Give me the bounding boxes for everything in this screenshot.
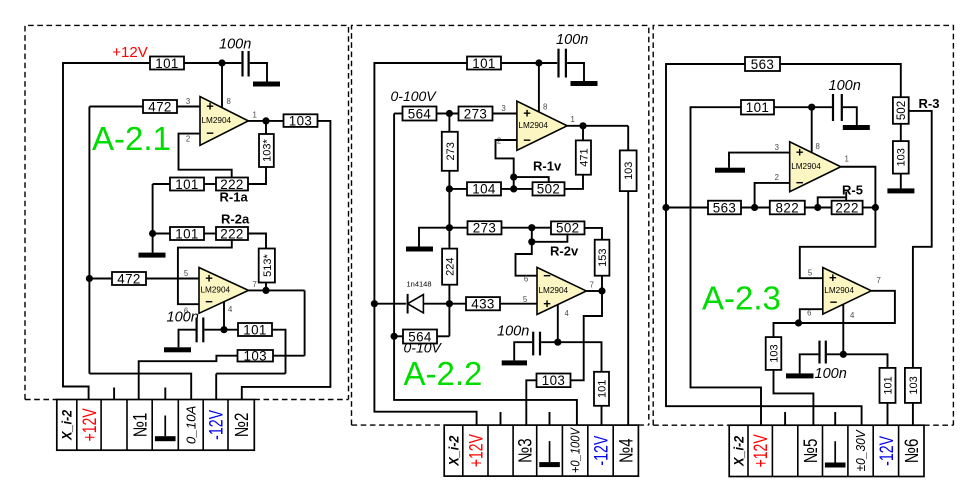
svg-text:273: 273 [473, 221, 497, 236]
capacitor 100n U2 supply [197, 318, 204, 343]
svg-text:−: − [205, 294, 213, 309]
wire rail to 564 [394, 113, 402, 115]
wire +12V rail A-2.2 [374, 63, 476, 425]
svg-text:0_10A: 0_10A [183, 406, 198, 445]
svg-text:2: 2 [497, 137, 501, 146]
svg-text:1: 1 [253, 111, 257, 120]
svg-text:+: + [206, 99, 214, 114]
wire 564 to 273 [437, 113, 459, 115]
wire 101 to connector -12V [887, 403, 889, 425]
wire U6 output feedback to 103 [774, 291, 895, 337]
wire input rail to 472 second [89, 278, 112, 280]
svg-text:−: − [543, 268, 551, 283]
wire to pin 6 U4 [516, 242, 538, 276]
wire 101 right down [273, 330, 286, 374]
wire pin 3 to ground [729, 153, 790, 168]
resistor 101 (R supply A-2.1) [150, 56, 184, 71]
wire capacitor to ground [843, 107, 857, 125]
svg-text:R-5: R-5 [842, 183, 863, 198]
junction U3 output [579, 122, 586, 129]
capacitor 100n bypass U5 [833, 94, 842, 121]
svg-text:-12V: -12V [876, 436, 898, 466]
resistor 101 vertical to -12V [594, 372, 609, 406]
svg-text:472: 472 [148, 99, 172, 114]
svg-text:104: 104 [472, 182, 496, 197]
svg-text:472: 472 [117, 271, 141, 286]
wire pin 8 supply stub [221, 63, 223, 108]
wire 103 to connector No1 [139, 356, 238, 400]
svg-text:1n4148: 1n4148 [407, 280, 432, 289]
svg-text:100n: 100n [815, 366, 847, 382]
wire 472 to pin 5 [146, 278, 199, 280]
wire 103 to connector No4 [627, 191, 629, 425]
module A-2.3 dashed border (left/top/right) [653, 25, 953, 425]
stub connector cell 3 A-2.3 [784, 412, 786, 425]
svg-text:563: 563 [713, 200, 737, 215]
wire 101 to connector -12V [601, 406, 603, 425]
wire junction link [531, 228, 533, 242]
svg-text:R-3: R-3 [919, 96, 940, 111]
junction row left A-2.3 [662, 204, 669, 211]
ground symbol in connector cell [825, 441, 846, 467]
wire U4 output [586, 290, 602, 292]
module A-2.3 dashed border bottom-left segment [653, 424, 729, 426]
ground bar middle A-2.1 [139, 253, 166, 258]
stub connector ground cell [164, 388, 166, 400]
svg-text:+: + [543, 296, 551, 311]
wire 103 to connector No6 [912, 403, 914, 425]
wire to 273 row 2 [449, 227, 467, 229]
resistor 103 vertical output A-2.3 [766, 337, 782, 370]
potentiometer 222 R-5 [832, 200, 863, 215]
svg-text:101: 101 [746, 100, 770, 115]
resistor 273 second stage [468, 221, 502, 236]
wire 563 to 822 [741, 207, 770, 209]
svg-text:3: 3 [775, 143, 779, 152]
wire output down to 103 [304, 290, 306, 355]
svg-text:−: − [206, 126, 214, 141]
svg-text:4: 4 [228, 305, 233, 314]
stub connector cell 3 [113, 388, 115, 400]
connector X_i-2 module A-2.1 [57, 400, 255, 451]
junction U2 output [262, 287, 269, 294]
svg-text:X_i-2: X_i-2 [446, 435, 461, 466]
junction 104/502 row [510, 185, 517, 192]
potentiometer 222 R-2a [216, 226, 248, 241]
wire 222 to output node [863, 207, 876, 209]
svg-text:7: 7 [877, 276, 881, 285]
ground bar pin3 A-2.3 [715, 168, 745, 173]
svg-text:101: 101 [596, 380, 608, 398]
ground symbol in connector cell [539, 441, 560, 467]
svg-text:R-1v: R-1v [533, 159, 562, 174]
junction supply node [218, 59, 225, 66]
svg-text:LM2904: LM2904 [791, 162, 821, 171]
svg-text:103: 103 [908, 376, 920, 394]
svg-text:LM2904: LM2904 [539, 286, 569, 295]
svg-text:101: 101 [472, 56, 496, 71]
wire pin 2 to row [755, 183, 790, 208]
wire divider rail [448, 171, 450, 249]
wire 101 to capacitor [184, 62, 241, 64]
svg-text:103: 103 [768, 344, 780, 362]
wire pin 6 to feedback [800, 309, 823, 323]
wire R-5 pointer [845, 192, 847, 201]
wire cap to ground [179, 330, 196, 348]
svg-text:7: 7 [253, 280, 257, 289]
svg-text:№3: №3 [516, 438, 537, 463]
svg-text:103: 103 [542, 373, 566, 388]
wire rail to 104 [449, 188, 467, 190]
wire input rail to 472 [89, 106, 143, 108]
stub connector cell 3 A-2.2 [500, 412, 502, 425]
svg-text:+: + [829, 270, 837, 285]
resistor 103 vertical to No6 [905, 368, 921, 403]
potentiometer 502 R-2v [551, 221, 585, 236]
svg-text:101: 101 [155, 56, 179, 71]
wire 103 output to connector No2 [242, 121, 331, 400]
wire capacitor to ground [567, 63, 584, 81]
svg-text:100n: 100n [167, 310, 199, 326]
junction U5 output node [872, 204, 879, 211]
wire output to 471 [582, 126, 584, 140]
svg-text:273: 273 [445, 142, 457, 160]
resistor 103* vertical feedback U1 [259, 134, 274, 167]
wire to connector -12V [215, 374, 217, 400]
svg-text:R-2a: R-2a [221, 212, 250, 227]
junction U4 output [598, 287, 605, 294]
wire 564 to rail [437, 335, 449, 337]
svg-text:5: 5 [808, 269, 813, 278]
op-amp U5 LM2904 A-2.3 [790, 142, 841, 192]
potentiometer 502 R-1v [533, 182, 565, 197]
wire cap to junction [541, 341, 558, 343]
svg-text:101: 101 [243, 322, 267, 337]
wire divider to 273 vertical [448, 114, 450, 132]
wire 433 to pin 5 [500, 303, 537, 305]
svg-text:LM2904: LM2904 [518, 121, 548, 130]
svg-text:5: 5 [184, 269, 189, 278]
resistor 101 R-1a network [170, 177, 204, 192]
resistor 101 supply A-2.2 [467, 56, 501, 71]
junction R-2v wiper [528, 238, 535, 245]
stub connector ground cell A-2.2 [549, 412, 551, 425]
wire input rail to connector +0_100V [394, 114, 577, 426]
svg-text:+0_100V: +0_100V [569, 427, 583, 473]
wire -12V feed horizontal [216, 373, 285, 375]
junction pin 2 node [751, 204, 758, 211]
svg-text:100n: 100n [497, 324, 529, 340]
wire 502 to 471 [565, 175, 584, 189]
wire 513* to U2 output [265, 283, 267, 291]
resistor 513* vertical feedback U2 [259, 249, 275, 283]
wire pin 8 stub U3 [538, 63, 540, 112]
svg-text:222: 222 [220, 226, 244, 241]
wire row to 563 [666, 207, 708, 209]
module A-2.1 dashed border bottom-right segment [254, 399, 348, 401]
resistor 224 vertical divider [442, 249, 457, 285]
resistor 153 vertical feedback U4 [595, 240, 610, 276]
svg-text:LM2904: LM2904 [824, 286, 854, 295]
svg-text:471: 471 [578, 148, 590, 166]
wire cap to ground [514, 342, 532, 360]
resistor 564 input divider [403, 106, 437, 121]
junction 104 row rail [446, 185, 453, 192]
wire ground rail to 101 R-2a [153, 233, 170, 235]
svg-text:-12V: -12V [591, 436, 613, 466]
resistor 101 supply A-2.3 [741, 100, 774, 115]
svg-text:3: 3 [186, 97, 190, 106]
wire 563 to 502 vertical [780, 64, 901, 97]
svg-text:103: 103 [896, 148, 908, 166]
wire pin 2 network U3 [496, 140, 517, 189]
svg-text:2: 2 [186, 135, 190, 144]
svg-text:101: 101 [175, 177, 199, 192]
svg-text:-12V: -12V [206, 410, 228, 440]
op-amp U2 LM2904 A-2.1 [199, 268, 249, 314]
ground symbol in connector cell [155, 416, 176, 442]
svg-text:A-2.3: A-2.3 [702, 280, 781, 317]
svg-text:103*: 103* [261, 138, 273, 161]
svg-text:+: + [796, 145, 804, 160]
svg-text:101: 101 [175, 226, 199, 241]
svg-text:103: 103 [289, 113, 313, 128]
wire 104 to 502 [501, 188, 533, 190]
wire rail to 564 [394, 335, 403, 337]
svg-text:№2: №2 [232, 413, 253, 438]
wire input rail vertical [88, 107, 90, 374]
capacitor 100n U4 supply [533, 332, 540, 356]
capacitor 100n bypass A-2.1 op-amp U1 [243, 51, 249, 77]
capacitor 100n U6 supply [820, 341, 826, 364]
resistor 101 negative supply A-2.1 [238, 322, 272, 337]
svg-text:502: 502 [556, 221, 580, 236]
svg-text:№4: №4 [617, 438, 638, 463]
resistor 822 [770, 200, 805, 215]
junction R-5 wiper node [814, 204, 821, 211]
resistor 471 vertical feedback U3 [576, 140, 591, 174]
junction 433 node [446, 300, 453, 307]
potentiometer 502 R-3 [893, 97, 909, 124]
junction divider row 2 [446, 224, 453, 231]
wire 502 to 103 vertical [900, 124, 902, 141]
wire 103 right [273, 355, 305, 357]
diode 1n4148 [408, 294, 424, 314]
svg-text:4: 4 [565, 309, 570, 318]
resistor 433 to pin 5 U4 [466, 297, 500, 312]
wire 153 to output [601, 276, 603, 291]
svg-text:103: 103 [623, 162, 635, 180]
wire 101 to capacitor [501, 62, 557, 64]
wire cap to ground [800, 354, 819, 373]
svg-text:273: 273 [464, 106, 488, 121]
wire 822 to 222 [805, 207, 832, 209]
svg-text:8: 8 [816, 142, 820, 151]
resistor 563 row A-2.3 [708, 200, 741, 215]
junction diode anode rail [371, 300, 378, 307]
wire rail to diode [374, 303, 406, 305]
op-amp U4 LM2904 A-2.2 [537, 267, 586, 314]
svg-text:LM2904: LM2904 [202, 116, 232, 125]
ground bar bottom A-2.3 [786, 373, 814, 378]
svg-text:100n: 100n [219, 37, 251, 53]
svg-text:№6: №6 [902, 439, 923, 464]
svg-text:−: − [830, 295, 838, 310]
junction ground rail [149, 230, 156, 237]
svg-text:A-2.1: A-2.1 [92, 120, 171, 157]
wire diode to junction [423, 303, 449, 305]
svg-text:3: 3 [501, 104, 505, 113]
svg-text:153: 153 [597, 249, 609, 267]
wire U1 output [248, 120, 283, 122]
junction supply node A-2.3 [808, 104, 815, 111]
svg-text:0-100V: 0-100V [391, 88, 438, 104]
wire 224 to 564 link [448, 285, 450, 337]
svg-text:+12V: +12V [465, 434, 487, 467]
ground bar right A-2.3 [887, 188, 914, 193]
wire 101 R-1a left [153, 183, 170, 185]
resistor 472 (U2 non-inverting input) [112, 271, 146, 286]
svg-text:101: 101 [882, 376, 894, 394]
wire 101 to capacitor [774, 106, 832, 108]
svg-text:224: 224 [445, 257, 457, 275]
connector X_i-2 module A-2.2 [444, 425, 638, 476]
connector X_i-2 module A-2.3 [729, 425, 924, 476]
wire R-2v wiper [532, 234, 568, 241]
wire to ground rail R-1a/R-2a [152, 184, 154, 253]
wire 103 to connector No3 [526, 380, 536, 425]
resistor 103 to No1 [238, 349, 274, 364]
resistor 472 (U1 non-inverting input) [143, 99, 177, 114]
ground bar cap A-2.3 [843, 125, 870, 130]
wire pin 2 to R-1a wiper [179, 134, 232, 178]
resistor 563 top A-2.3 [745, 57, 780, 72]
wire R-5 wiper [818, 197, 847, 207]
stub connector ground cell A-2.3 [834, 412, 836, 425]
svg-text:1: 1 [845, 155, 849, 164]
svg-text:564: 564 [408, 106, 432, 121]
wire output to 103 vertical [627, 126, 629, 151]
module A-2.3 dashed border bottom-right segment [924, 424, 953, 426]
resistor 101 R-2a network [170, 226, 204, 241]
resistor 564 input 0-10V [403, 329, 437, 344]
svg-text:6: 6 [524, 275, 528, 284]
resistor 103 output A-2.1 [284, 113, 318, 128]
wire 101 rail to connector +12V [691, 107, 762, 425]
wire R-3 wiper to 103 [909, 111, 932, 368]
wire output node to pin 5 U6 [800, 208, 876, 279]
svg-text:+12V: +12V [750, 434, 772, 467]
wire junction to 433 [449, 303, 466, 305]
wire pin 4 [223, 302, 225, 330]
svg-text:502: 502 [537, 182, 561, 197]
wire pin 4 U6 [842, 304, 844, 354]
module A-2.2 dashed border (left/top/right) [352, 25, 649, 425]
svg-text:−: − [523, 132, 531, 147]
resistor 273 vertical divider [442, 132, 458, 171]
svg-text:103: 103 [243, 349, 267, 364]
svg-text:563: 563 [751, 57, 775, 72]
op-amp U3 LM2904 A-2.2 [517, 101, 567, 150]
svg-text:0-10V: 0-10V [404, 340, 443, 356]
junction divider node [446, 110, 453, 117]
wire 502 to 153 [585, 228, 603, 240]
svg-text:A-2.2: A-2.2 [404, 355, 483, 392]
potentiometer 222 R-1a [216, 177, 248, 192]
module A-2.2 dashed border bottom-right segment [638, 424, 648, 426]
junction row 2 [528, 224, 535, 231]
wire pin 8 stub U5 [811, 107, 813, 152]
wire junction to 101 vertical [558, 342, 602, 372]
wire +12V rail to connector pin 2 [63, 63, 150, 400]
wire cap to junction [827, 353, 843, 355]
junction pin 4 node U4 [554, 339, 561, 346]
ground bar top A-2.1 [253, 82, 280, 87]
wire row to ground [419, 228, 449, 247]
svg-text:822: 822 [776, 200, 800, 215]
svg-text:R-2v: R-2v [550, 244, 579, 259]
svg-text:1: 1 [571, 115, 575, 124]
svg-text:7: 7 [590, 281, 594, 290]
svg-text:4: 4 [850, 311, 855, 320]
svg-text:№5: №5 [801, 439, 822, 464]
wire 101-222 R-2a [204, 233, 216, 235]
wire capacitor to ground [250, 63, 267, 82]
wire 103 to connector No5 [774, 370, 814, 425]
op-amp U6 LM2904 A-2.3 [823, 268, 872, 315]
wire U5 output to row [841, 167, 876, 208]
svg-text:X_i-2: X_i-2 [731, 435, 746, 466]
ground bar middle A-2.2 [406, 247, 433, 252]
capacitor 100n bypass U3 [559, 49, 566, 78]
junction pin 4 node U6 [840, 351, 847, 358]
resistor 101 vertical to -12V A-2.3 [880, 368, 896, 403]
svg-text:513*: 513* [262, 253, 274, 276]
resistor 104 [467, 182, 501, 197]
wire 101-222 R-1a [204, 183, 216, 185]
svg-text:+12V: +12V [112, 44, 147, 61]
wire 222 R-2a to 513* [248, 234, 266, 249]
svg-text:433: 433 [471, 297, 495, 312]
wire output to 103* [265, 121, 267, 134]
wire input rail to connector 0_10A [89, 374, 191, 400]
resistor 103 to No3 [537, 373, 571, 388]
svg-text:100n: 100n [829, 78, 861, 94]
wire R-2a wiper to pin 6 [178, 240, 232, 304]
op-amp U1 LM2904 A-2.1 [200, 97, 248, 146]
svg-text:5: 5 [523, 295, 528, 304]
svg-text:8: 8 [227, 97, 231, 106]
wire 472 to pin 3 [177, 106, 200, 108]
module A-2.1 dashed border bottom-left segment [25, 399, 57, 401]
svg-text:502: 502 [896, 101, 908, 120]
module A-2.1 dashed border (left/top/right) [25, 25, 349, 399]
ground bar bottom A-2.1 [164, 347, 191, 352]
resistor 103 vertical to No4 [620, 150, 637, 191]
wire cap to 101 [204, 329, 238, 331]
resistor 103 vertical R-3 divider [893, 141, 909, 174]
svg-text:+: + [205, 271, 213, 286]
junction R-1v wiper [510, 174, 517, 181]
junction input rail to second stage [86, 275, 93, 282]
wire output to 103 [571, 291, 603, 380]
svg-text:100n: 100n [556, 32, 588, 48]
wire pin 4 U4 [557, 304, 559, 342]
svg-text:2: 2 [775, 173, 779, 182]
wire U3 output [567, 125, 628, 127]
svg-text:−: − [796, 175, 804, 190]
svg-text:№1: №1 [130, 413, 151, 438]
